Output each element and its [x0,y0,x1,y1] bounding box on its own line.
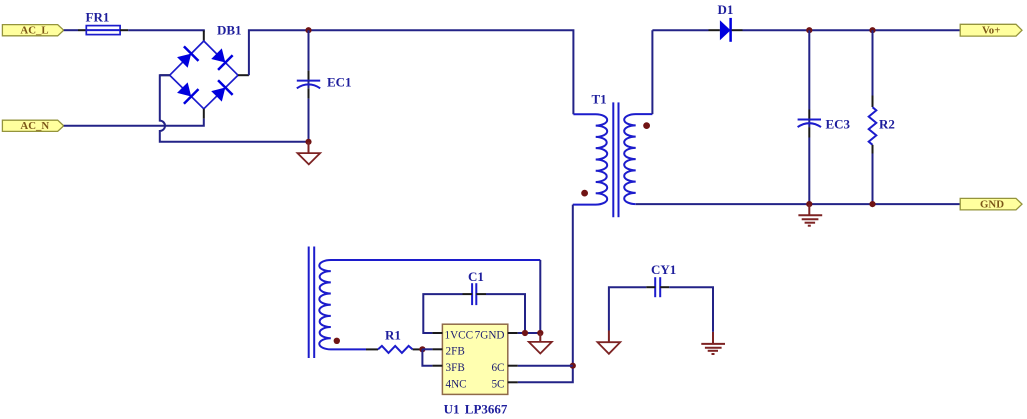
capacitor EC3 [798,117,851,132]
svg-text:DB1: DB1 [217,23,242,38]
wire 7GND to ground [518,332,541,334]
pin EC3 top [808,110,810,120]
svg-text:5C: 5C [491,378,504,390]
pin DB1 left [160,74,170,76]
pin R2 top [872,30,874,95]
T1 secondary winding [624,114,652,204]
diode D1 [718,2,734,42]
svg-text:6C: 6C [491,362,504,374]
diode DB1 top-right [209,46,232,69]
wire aux top riser [539,260,541,333]
svg-text:R2: R2 [879,117,895,132]
svg-text:3FB: 3FB [446,362,465,374]
pin D1 cathode [732,29,743,31]
wire EC3 bottom [808,138,810,205]
pin U1-1 VCC [432,332,442,334]
pin R2 bottom [872,145,874,154]
wire CY1 right to earth [669,287,713,332]
svg-text:FR1: FR1 [86,9,110,24]
wire AC_N to bridge bottom [64,119,204,126]
node junction EC3 bottom [806,201,812,207]
pin CY1 left [646,286,655,288]
wire AC_L to FR1 [64,29,78,31]
wire 3FB to FB node [422,349,432,365]
wire CY1 left to ground [609,287,646,330]
pin EC3 bottom [808,127,810,137]
svg-text:Vo+: Vo+ [982,25,1000,37]
svg-text:EC1: EC1 [327,75,352,90]
wire 6C to node [518,365,573,367]
diode DB1 bottom-right [209,80,232,103]
port AC_N [2,120,63,132]
T1 primary winding [573,114,607,204]
pin C1 right [476,293,486,295]
diode DB1 top-left [175,46,198,69]
resistor R1 [378,328,413,353]
pin R1 left [366,348,378,350]
pin DB1 right [238,74,249,76]
aux winding coil [319,260,540,349]
pin C1 left [463,293,473,295]
pin U1-7 GND [508,332,518,334]
pin U1-3 FB [432,365,442,367]
node junction R1/FB [419,346,425,352]
resistor R2 [869,107,895,145]
aux winding [309,247,541,359]
node junction R2 bottom [869,201,875,207]
svg-text:GND: GND [980,199,1004,211]
ground earth (below EC3) [798,204,822,226]
svg-text:C1: C1 [468,269,484,284]
wire D1 to Vo+ [743,29,961,31]
wire GND rail [636,203,960,205]
wire C1 right to GND pin [486,294,525,333]
wire FR1 to bridge top [128,30,204,31]
pin U1-2 FB [432,348,442,350]
ground GND3 (below CY1 left) [598,331,621,354]
wire R2 bottom [872,154,874,205]
T1 secondary polarity dot [643,122,650,129]
svg-text:CY1: CY1 [651,262,676,277]
node junction 6C [570,363,576,369]
port Vo+ [960,24,1022,36]
diode DB1 bottom-left [175,80,198,103]
svg-text:2FB: 2FB [446,346,465,358]
wire C1 left to VCC [423,294,462,333]
pin FR1 right [120,29,128,31]
aux polarity dot [334,338,340,344]
svg-text:U1: U1 [444,402,460,417]
bridge DB1 body [170,23,242,109]
transformer T1 [573,92,653,218]
svg-text:AC_N: AC_N [20,120,49,132]
node junction EC1 bottom [305,139,311,145]
T1 primary polarity dot [581,190,588,197]
capacitor EC1 [297,75,352,90]
wire top rail to D1 [652,29,708,31]
svg-text:7GND: 7GND [475,329,505,341]
port GND [960,198,1022,210]
wire EC1 top [308,30,310,70]
pin CY1 right [660,286,669,288]
port AC_L [2,25,63,37]
node junction EC3 top [806,27,812,33]
wire EC1 bottom [308,99,310,142]
IC U1 LP3667 [442,324,508,416]
ground GND2 (below 7GND) [529,333,552,354]
ground GND1 (below EC1) [298,142,321,165]
svg-text:T1: T1 [592,92,607,107]
node junction R2 top [869,27,875,33]
pin FR1 left [78,29,86,31]
capacitor CY1 [651,262,676,297]
pin R1 right [413,348,422,350]
pin D1 anode [709,29,720,31]
svg-text:R1: R1 [385,328,401,343]
wire bridge left to ground rail (with hop) [160,75,309,142]
wire bridge right to top rail [249,30,574,114]
svg-text:1VCC: 1VCC [445,329,474,341]
svg-text:D1: D1 [718,2,734,17]
fuse FR1 [86,9,121,34]
pin EC1 top [308,71,310,81]
node junction EC1 top [305,27,311,33]
pin U1-6 C [508,365,518,367]
wire primary bottom to 5C/6C [518,205,573,383]
ground earth (below CY1 right) [701,332,725,354]
svg-text:AC_L: AC_L [20,25,48,37]
T1 core [612,102,614,217]
node junction C1/GND [522,330,528,336]
svg-text:EC3: EC3 [826,117,851,132]
pin EC1 bottom [308,88,310,98]
node junction GND/aux [537,330,543,336]
capacitor C1 [468,269,484,305]
pin DB1 bottom [203,109,205,119]
svg-text:LP3667: LP3667 [465,402,508,417]
svg-text:4NC: 4NC [446,378,467,390]
pin DB1 top [203,31,205,42]
wire secondary top riser [651,30,653,114]
aux core [308,247,310,359]
wire EC3 top [808,30,810,109]
pin U1-5 C [508,381,518,383]
